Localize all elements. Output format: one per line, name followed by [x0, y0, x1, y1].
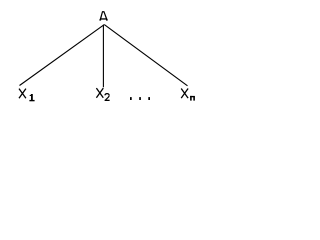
node A label (drawn glyph) — [99, 11, 107, 20]
wire: edge A to X2 — [102, 25, 104, 88]
node Xn label: X glyph — [181, 89, 188, 99]
node X1 label: X glyph — [19, 89, 26, 99]
diagram: root node A with children X1, X2, ..., Xn — [0, 0, 215, 118]
subscript n of Xn — [190, 96, 195, 101]
ellipsis dots — [130, 97, 132, 100]
node X2 label: X glyph — [96, 88, 103, 98]
wire: edge A to X1 — [20, 25, 105, 86]
wire: edge A to Xn — [104, 25, 187, 86]
subscript 1 of X1 — [29, 94, 34, 101]
subscript 2 of X2 — [105, 94, 110, 101]
